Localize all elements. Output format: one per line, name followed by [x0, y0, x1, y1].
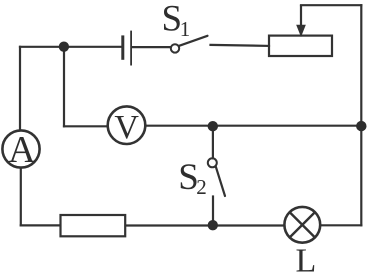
rheostat body R — [269, 36, 332, 56]
resistor R2 (bottom) — [61, 215, 126, 236]
wire S2 lower to bottom junction — [212, 197, 214, 226]
svg-text:V: V — [114, 109, 139, 146]
svg-text:A: A — [8, 129, 36, 171]
junction node middle right — [356, 121, 366, 131]
rheostat wiper arrow — [300, 5, 302, 25]
wire right vertical — [360, 5, 362, 225]
wire voltmeter right to right vertical — [145, 125, 361, 127]
wire top-right horizontal (wiper to right) — [301, 4, 361, 6]
wire bottom right (lamp to right corner) — [320, 224, 361, 226]
wire to voltmeter left — [64, 125, 108, 127]
switch S1 pivot circle — [171, 44, 179, 52]
battery cell: thick short plate (left) — [121, 35, 124, 59]
wire junction B down to S2 — [212, 126, 214, 159]
wire left vertical lower — [20, 167, 22, 225]
wire S1 to rheostat — [211, 45, 270, 46]
svg-text:L: L — [296, 243, 317, 274]
voltmeter V1 — [108, 106, 146, 144]
wire bottom middle (resistor to lamp) — [125, 224, 284, 226]
wire battery to S1 — [132, 46, 170, 48]
wire bottom-left horizontal — [21, 224, 61, 226]
switch S2 pivot circle — [208, 158, 217, 167]
lamp L — [284, 207, 320, 243]
svg-text:1: 1 — [180, 17, 191, 41]
junction node middle (S2 top) — [208, 121, 218, 131]
svg-text:2: 2 — [196, 175, 207, 199]
switch S2 lever — [216, 166, 225, 196]
wire top-left horizontal — [20, 46, 121, 48]
ammeter A1 — [2, 130, 39, 167]
junction node top-left — [59, 42, 69, 52]
switch S1 lever — [179, 36, 208, 46]
junction node bottom (S2 bottom) — [208, 220, 218, 230]
wire left vertical upper — [19, 47, 21, 131]
battery cell: thin long plate (right) — [130, 31, 132, 66]
wire junction A down to voltmeter row — [63, 47, 65, 127]
